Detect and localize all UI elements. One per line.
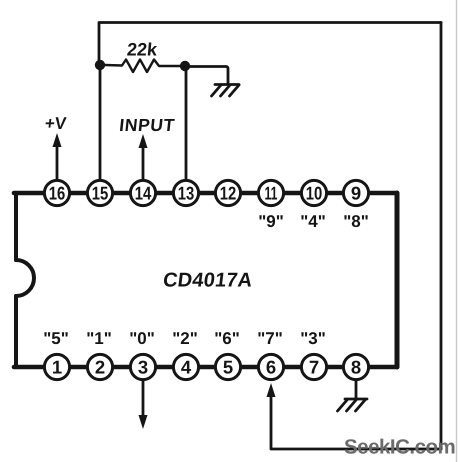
svg-text:"7": "7" [257,329,283,348]
pin 16 [44,180,69,205]
svg-text:22k: 22k [126,40,159,60]
pin 14 [130,180,155,205]
output arrow from pin 3 [142,381,145,417]
svg-text:"6": "6" [214,329,240,348]
svg-text:2: 2 [95,357,105,378]
pin 6 [258,354,283,379]
arrow into pin 6 [267,383,276,397]
pin 4 [173,354,198,379]
pin 13 [173,180,198,205]
svg-text:13: 13 [178,183,195,204]
pin 1 [44,354,69,379]
node labels bottom row [43,329,326,348]
ground (top, chassis style) [212,85,240,97]
svg-text:CD4017A: CD4017A [162,270,254,292]
svg-text:SeekIC.com: SeekIC.com [344,436,455,459]
pin numbers bottom row [52,357,361,378]
svg-text:4: 4 [181,357,192,378]
svg-text:7: 7 [309,357,319,378]
resistor R1 22k [105,60,180,73]
svg-text:"1": "1" [86,329,112,348]
pin 3 [130,354,155,379]
svg-text:12: 12 [220,183,237,204]
notch [16,260,34,296]
wire pin13 to junction B [185,66,188,180]
svg-text:15: 15 [92,183,109,204]
INPUT arrow on pin 14 [142,146,145,180]
pin 8 [343,354,368,379]
IC U1 CD4017A body outline [14,193,397,367]
pin 2 [87,354,112,379]
svg-text:9: 9 [351,183,361,204]
pin 15 [87,180,112,205]
svg-text:1: 1 [52,357,62,378]
wire pin 8 to ground [355,381,358,399]
junction B [180,61,190,71]
pin 7 [301,354,326,379]
ground (below pin 8) [338,399,368,411]
svg-text:10: 10 [306,183,323,204]
wire bottom run to pin6 arrow [271,396,441,449]
svg-text:14: 14 [135,183,152,204]
svg-text:5: 5 [223,357,233,378]
svg-text:"3": "3" [300,329,326,348]
svg-text:INPUT: INPUT [118,115,176,135]
svg-text:3: 3 [138,357,148,378]
pin 5 [215,354,240,379]
wire right side down [440,23,443,450]
wire pin15 to junction A [99,64,102,180]
pin 12 [215,180,240,205]
pin circles top row [44,180,368,379]
+V arrow on pin 16 [56,145,59,180]
svg-text:"4": "4" [300,212,326,231]
pin 10 [301,180,326,205]
svg-text:16: 16 [49,183,66,204]
pin numbers top row [49,183,361,204]
pin 9 [343,180,368,205]
svg-text:8: 8 [351,357,361,378]
wire junction B to top ground [190,67,228,85]
pin 11 [258,180,283,205]
wire top loop from pin15 node to right side [99,23,441,65]
svg-text:"8": "8" [343,212,369,231]
svg-text:"2": "2" [172,329,198,348]
svg-text:"5": "5" [43,329,69,348]
svg-text:+V: +V [44,114,68,133]
svg-text:"9": "9" [258,212,284,231]
node labels top row [258,212,369,231]
svg-text:"0": "0" [129,329,155,348]
faint scan edge right [456,0,458,462]
svg-text:6: 6 [266,357,276,378]
junction A [95,60,105,70]
svg-text:11: 11 [265,183,278,204]
